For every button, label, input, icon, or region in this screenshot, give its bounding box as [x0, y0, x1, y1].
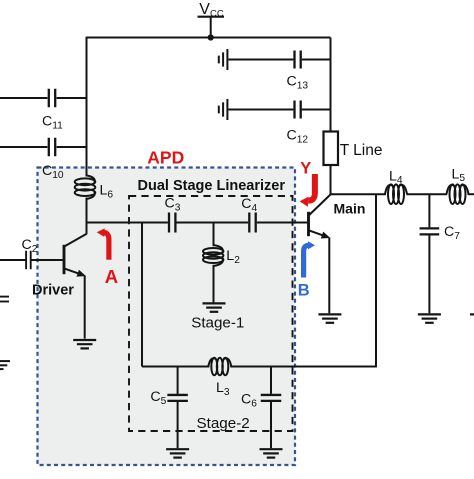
svg-text:Stage-2: Stage-2: [197, 415, 250, 432]
svg-text:Stage-1: Stage-1: [191, 315, 244, 332]
svg-text:Y: Y: [300, 159, 311, 177]
svg-text:APD: APD: [147, 148, 184, 168]
svg-text:Dual Stage Linearizer: Dual Stage Linearizer: [138, 178, 286, 194]
svg-text:Main: Main: [334, 201, 366, 217]
svg-text:Driver: Driver: [32, 283, 74, 299]
svg-text:T Line: T Line: [340, 142, 383, 159]
svg-text:B: B: [298, 282, 310, 300]
svg-text:A: A: [105, 266, 118, 287]
